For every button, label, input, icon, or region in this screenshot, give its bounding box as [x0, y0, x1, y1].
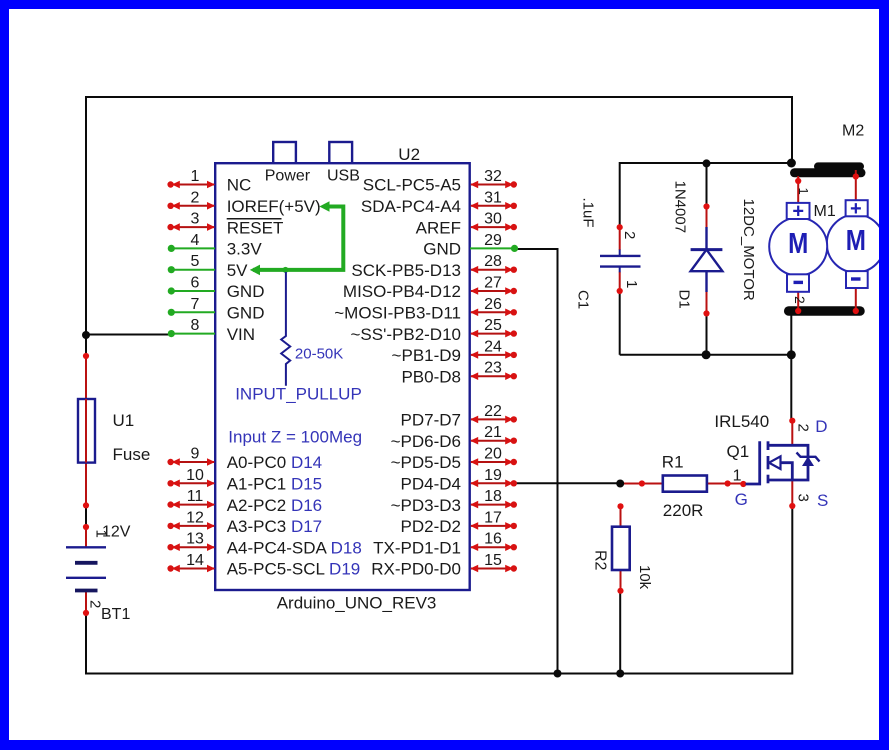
svg-text:17: 17	[484, 509, 502, 526]
svg-text:SCK-PB5-D13: SCK-PB5-D13	[351, 261, 461, 280]
svg-text:13: 13	[186, 531, 204, 548]
svg-text:GND: GND	[227, 282, 265, 301]
svg-text:AREF: AREF	[416, 218, 461, 237]
svg-text:PB0-D8: PB0-D8	[401, 367, 461, 386]
svg-text:28: 28	[484, 253, 502, 270]
svg-text:PD7-D7: PD7-D7	[401, 411, 461, 430]
svg-text:PD4-D4: PD4-D4	[401, 475, 461, 494]
svg-text:19: 19	[484, 467, 502, 484]
svg-text:4: 4	[191, 232, 200, 249]
svg-text:10: 10	[186, 467, 204, 484]
svg-text:1: 1	[93, 530, 110, 538]
svg-text:27: 27	[484, 275, 502, 292]
svg-text:M1: M1	[814, 203, 836, 220]
svg-text:M: M	[788, 227, 808, 259]
svg-text:A2-PC2 D16: A2-PC2 D16	[227, 496, 322, 515]
svg-text:~PD3-D3: ~PD3-D3	[391, 496, 461, 515]
svg-text:Power: Power	[265, 168, 311, 185]
svg-text:Q1: Q1	[727, 442, 750, 461]
svg-text:~PB1-D9: ~PB1-D9	[392, 346, 461, 365]
svg-text:25: 25	[484, 317, 502, 334]
svg-text:29: 29	[484, 232, 502, 249]
svg-text:A1-PC1 D15: A1-PC1 D15	[227, 475, 322, 494]
svg-text:D1: D1	[676, 290, 693, 309]
svg-text:5V: 5V	[227, 261, 248, 280]
svg-text:IRL540: IRL540	[714, 412, 769, 431]
svg-text:Fuse: Fuse	[113, 445, 151, 464]
svg-text:Input Z = 100Meg: Input Z = 100Meg	[228, 427, 362, 446]
svg-text:22: 22	[484, 403, 502, 420]
svg-text:GND: GND	[423, 240, 461, 259]
svg-text:30: 30	[484, 211, 502, 228]
svg-text:A4-PC4-SDA D18: A4-PC4-SDA D18	[227, 538, 362, 557]
svg-text:2: 2	[792, 296, 808, 304]
svg-text:S: S	[817, 491, 828, 510]
svg-text:M: M	[846, 224, 866, 256]
svg-text:1: 1	[623, 280, 640, 288]
svg-text:PD2-D2: PD2-D2	[401, 517, 461, 536]
svg-text:RX-PD0-D0: RX-PD0-D0	[371, 560, 461, 579]
svg-text:26: 26	[484, 296, 502, 313]
svg-text:+: +	[792, 201, 804, 223]
svg-text:9: 9	[191, 446, 200, 463]
svg-text:6: 6	[191, 275, 200, 292]
svg-text:2: 2	[87, 600, 104, 608]
svg-text:15: 15	[484, 552, 502, 569]
svg-text:~SS'-PB2-D10: ~SS'-PB2-D10	[351, 325, 462, 344]
svg-text:C1: C1	[575, 290, 592, 309]
svg-text:14: 14	[186, 552, 204, 569]
svg-text:24: 24	[484, 338, 502, 355]
svg-text:8: 8	[191, 317, 200, 334]
svg-text:1N4007: 1N4007	[672, 181, 689, 234]
svg-text:A3-PC3 D17: A3-PC3 D17	[227, 517, 322, 536]
svg-text:GND: GND	[227, 304, 265, 323]
svg-text:20: 20	[484, 446, 502, 463]
svg-text:G: G	[735, 490, 748, 509]
svg-text:.1uF: .1uF	[580, 198, 597, 228]
svg-text:3.3V: 3.3V	[227, 240, 263, 259]
svg-text:23: 23	[484, 360, 502, 377]
svg-text:R1: R1	[662, 453, 684, 472]
svg-text:20-50K: 20-50K	[295, 346, 343, 363]
svg-text:21: 21	[484, 424, 502, 441]
svg-text:32: 32	[484, 168, 502, 185]
svg-text:U1: U1	[113, 411, 135, 430]
svg-text:1: 1	[733, 468, 742, 485]
svg-text:12DC_MOTOR: 12DC_MOTOR	[740, 199, 757, 301]
svg-text:1: 1	[796, 188, 811, 195]
svg-text:RESET: RESET	[227, 218, 284, 237]
svg-text:+: +	[850, 198, 862, 220]
svg-text:31: 31	[484, 189, 502, 206]
svg-text:12: 12	[186, 509, 204, 526]
svg-text:~PD5-D5: ~PD5-D5	[391, 453, 461, 472]
svg-text:SCL-PC5-A5: SCL-PC5-A5	[363, 176, 461, 195]
svg-text:D: D	[815, 417, 827, 436]
svg-text:A5-PC5-SCL D19: A5-PC5-SCL D19	[227, 560, 361, 579]
svg-text:18: 18	[484, 488, 502, 505]
svg-text:INPUT_PULLUP: INPUT_PULLUP	[235, 385, 362, 404]
svg-text:IOREF(+5V): IOREF(+5V)	[227, 197, 321, 216]
svg-text:M2: M2	[842, 123, 864, 140]
svg-text:VIN: VIN	[227, 325, 255, 344]
svg-text:Arduino_UNO_REV3: Arduino_UNO_REV3	[277, 594, 437, 613]
svg-text:A0-PC0 D14: A0-PC0 D14	[227, 453, 322, 472]
svg-text:U2: U2	[398, 145, 420, 164]
svg-text:1: 1	[191, 168, 200, 185]
svg-text:TX-PD1-D1: TX-PD1-D1	[373, 538, 461, 557]
svg-text:3: 3	[795, 494, 812, 502]
svg-text:10k: 10k	[636, 565, 653, 590]
svg-text:~MOSI-PB3-D11: ~MOSI-PB3-D11	[334, 304, 461, 323]
svg-text:5: 5	[191, 253, 200, 270]
svg-text:2: 2	[795, 424, 812, 432]
svg-text:220R: 220R	[663, 501, 704, 520]
svg-text:USB: USB	[327, 168, 360, 185]
svg-text:MISO-PB4-D12: MISO-PB4-D12	[343, 282, 461, 301]
svg-text:R2: R2	[592, 550, 609, 571]
svg-text:3: 3	[191, 211, 200, 228]
svg-text:2: 2	[621, 231, 638, 239]
svg-text:SDA-PC4-A4: SDA-PC4-A4	[361, 197, 461, 216]
svg-text:~PD6-D6: ~PD6-D6	[391, 432, 461, 451]
svg-text:2: 2	[191, 189, 200, 206]
svg-text:NC: NC	[227, 176, 252, 195]
svg-text:16: 16	[484, 531, 502, 548]
svg-text:11: 11	[187, 488, 204, 505]
svg-text:7: 7	[191, 296, 200, 313]
svg-text:BT1: BT1	[101, 606, 130, 623]
